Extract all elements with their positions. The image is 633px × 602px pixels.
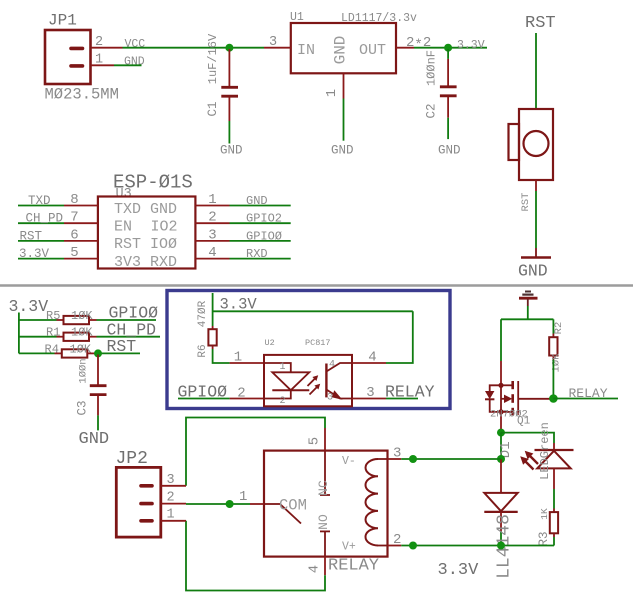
U1 OUT pin lead (396, 47, 414, 49)
highlight frame (blue) (167, 291, 450, 409)
LED D1 upper lead (553, 443, 555, 450)
svg-text:PC817: PC817 (305, 338, 331, 348)
svg-text:NC: NC (316, 480, 331, 496)
C3 top plate (90, 384, 107, 387)
wire RELAY to right (553, 398, 618, 400)
svg-text:2: 2 (279, 396, 285, 407)
resistor R2 lower lead (552, 356, 554, 360)
wire RELAY (opto) (386, 398, 418, 400)
junction node V+ left (409, 542, 417, 550)
Q1 body diode left path (490, 385, 501, 391)
diode D2 lower lead (500, 512, 502, 531)
svg-text:GND: GND (79, 430, 110, 449)
Q1 drain stub (501, 384, 513, 386)
U3 pin 3 lead (195, 240, 229, 242)
U2 collector path (326, 363, 352, 372)
svg-text:JP2: JP2 (116, 449, 148, 469)
svg-text:3V3 RXD: 3V3 RXD (114, 254, 177, 271)
supply stem (527, 299, 529, 306)
svg-text:CH_PD: CH_PD (26, 212, 64, 226)
wire JP2 pin2 to COM (186, 503, 250, 505)
svg-text:R3: R3 (537, 531, 551, 546)
U3 pin 1 lead (195, 205, 229, 207)
wire right branch to R2 (552, 319, 554, 333)
resistor R1 body (64, 333, 90, 341)
wire source node down to V- node (500, 433, 502, 459)
svg-text:3: 3 (366, 385, 374, 401)
svg-text:R6: R6 (197, 344, 209, 357)
C2 upper wire (447, 49, 449, 59)
relay pin 3 lead (V-) (388, 458, 402, 460)
svg-text:R1: R1 (46, 326, 60, 340)
JP2 pin stub 3 (141, 484, 152, 488)
ground symbol lead (535, 248, 537, 257)
resistor R4 right lead (87, 352, 94, 354)
pushbutton lower lead (535, 180, 537, 191)
wire C3 to GND (97, 415, 99, 430)
svg-text:TXD GND: TXD GND (114, 201, 177, 218)
svg-text:JP1: JP1 (48, 12, 77, 30)
svg-text:MØ23.5MM: MØ23.5MM (45, 86, 119, 104)
svg-text:1ØK: 1ØK (71, 309, 93, 323)
junction node V- row (497, 455, 505, 463)
relay coil (366, 459, 379, 545)
wire R3 to V+ rail (553, 537, 555, 546)
junction node at C2 tap (444, 44, 452, 52)
pushbutton S1 body (519, 109, 553, 180)
svg-text:1ØK: 1ØK (71, 326, 93, 340)
U2 emission arrow b (310, 386, 319, 395)
svg-text:OUT: OUT (359, 42, 386, 59)
capacitor C3 (76, 355, 110, 450)
svg-text:NO: NO (316, 514, 331, 530)
supply symbol wide bar (519, 297, 538, 300)
Q1 source stub (501, 411, 513, 413)
svg-text:RST: RST (520, 193, 532, 212)
svg-text:GND: GND (332, 36, 350, 65)
resistor R2 upper lead (552, 334, 554, 338)
svg-text:GND: GND (518, 262, 548, 281)
C2 lower lead (447, 97, 449, 118)
resistor R5 body (64, 316, 90, 324)
wire right drop to opto pin4 (386, 311, 413, 363)
wire source node to LED corner (501, 433, 554, 443)
U3 body (98, 197, 195, 269)
junction node RST/C3 (94, 349, 102, 357)
resistor R3 body (550, 512, 558, 533)
Q1 body diode lower path (490, 399, 501, 412)
svg-text:GPIO2: GPIO2 (246, 212, 282, 226)
U2 emission arrow a (308, 378, 317, 387)
svg-text:2: 2 (237, 386, 245, 402)
JP2 pin 1 lead (161, 520, 186, 522)
junction node COM wire (226, 500, 234, 508)
svg-text:EN: EN (114, 219, 132, 236)
U1 body (291, 23, 396, 73)
connector JP2 (116, 467, 161, 537)
resistor R6 body (208, 329, 216, 345)
svg-text:8: 8 (70, 192, 78, 208)
wire GPIO0 row left (19, 319, 57, 321)
opto U2 pin 3 lead (352, 398, 386, 400)
Q1 channel segment top (511, 381, 514, 389)
wire 3.3V rail right of U1 (414, 47, 487, 49)
wire V+ rail (401, 545, 554, 547)
wire CH_PD row left (19, 336, 57, 338)
resistor R5 left lead (57, 319, 64, 321)
relay K1 body (264, 451, 388, 557)
resistor R1 left lead (57, 336, 64, 338)
svg-text:RELAY: RELAY (328, 557, 379, 576)
svg-text:C1: C1 (206, 101, 220, 116)
svg-text:3: 3 (208, 227, 216, 243)
LED D1 emission arrow a (529, 455, 538, 464)
Q1 body diode bar (485, 398, 494, 400)
relay pin 5 lead (top) (324, 428, 326, 451)
relay pin 4 lead (bottom) (324, 557, 326, 576)
svg-text:TXD: TXD (28, 194, 51, 208)
svg-text:3.3V: 3.3V (9, 297, 49, 316)
LED D1 lower lead (553, 468, 555, 489)
relay NO contact line (324, 531, 326, 556)
wire RST (18, 240, 64, 242)
svg-text:R5: R5 (46, 309, 60, 323)
relay coil bottom connect (378, 545, 388, 547)
resistor R5 right lead (89, 319, 97, 321)
wire 3.3V vertical rail (18, 313, 20, 354)
wire CH_PD row right (97, 336, 161, 338)
svg-text:IN: IN (297, 42, 315, 59)
svg-text:RST: RST (525, 14, 556, 33)
wire D2 to V+ rail (500, 531, 502, 545)
supply symbol (inverted ground) small bar (525, 291, 531, 293)
voltage regulator U1 (264, 11, 431, 158)
JP1 pin stub 2 (71, 47, 83, 51)
svg-text:C2: C2 (425, 103, 439, 118)
junction node Q1 source (497, 429, 505, 437)
connector JP1 (45, 30, 91, 84)
pushbutton side tab (509, 124, 520, 160)
wire switch to GND (535, 191, 537, 248)
svg-text:GND: GND (124, 55, 145, 68)
C2 top plate (440, 85, 457, 88)
svg-text:U3: U3 (116, 187, 132, 202)
svg-text:4: 4 (208, 245, 216, 261)
svg-text:3.3V: 3.3V (438, 561, 480, 580)
Q1 drain junction dot (498, 383, 503, 388)
svg-text:4: 4 (329, 360, 335, 371)
relay NC tick (320, 494, 330, 496)
wire GPIO2 (230, 222, 291, 224)
U3 pin 4 lead (195, 258, 229, 260)
C3 bottom plate (90, 393, 107, 396)
svg-text:2: 2 (167, 491, 175, 506)
junction node V- left (409, 455, 417, 463)
junction node at C1 tap (225, 44, 233, 52)
svg-text:C3: C3 (76, 400, 90, 415)
wire RST to switch (535, 33, 537, 109)
wire LED to R3 (553, 489, 555, 509)
relay NC contact line (324, 451, 326, 495)
Q1 channel segment bottom (511, 408, 514, 416)
wire RXD (230, 258, 291, 260)
C3 upper lead (97, 355, 99, 385)
JP2 pin stub 2 (141, 502, 152, 506)
wire R6 to opto pin1 (213, 349, 230, 363)
junction node RELAY/gate/R2 (549, 394, 558, 403)
wire U1 GND down (343, 99, 345, 141)
wire GND right (230, 205, 291, 207)
svg-text:GND: GND (438, 144, 461, 158)
svg-text:1: 1 (279, 362, 285, 373)
resistor R6 upper lead (212, 326, 214, 329)
svg-text:RXD: RXD (246, 247, 268, 261)
relay coil top connect (378, 458, 388, 460)
capacitor C2 (425, 49, 461, 158)
svg-text:1K: 1K (539, 508, 550, 520)
U2 LED cathode bar (272, 389, 309, 391)
svg-text:R4: R4 (45, 342, 59, 356)
C1 upper lead (228, 49, 230, 86)
svg-text:3: 3 (393, 446, 401, 462)
svg-text:IO2: IO2 (151, 219, 178, 236)
svg-text:GND: GND (331, 144, 354, 158)
relay NO tick (320, 530, 330, 532)
pushbutton actuator circle (524, 131, 549, 156)
wire 3.3V horizontal (opto) (213, 310, 413, 312)
svg-text:3.3V: 3.3V (457, 39, 485, 52)
svg-text:U2: U2 (265, 338, 275, 348)
resistor R2 body (549, 337, 557, 355)
svg-text:3.3V: 3.3V (19, 247, 50, 261)
Q1 body diode triangle (485, 391, 494, 399)
JP1 pin 1 lead (91, 64, 114, 66)
svg-text:47ØR: 47ØR (197, 300, 209, 327)
svg-text:RST: RST (20, 229, 43, 243)
Q1 gate line (517, 381, 519, 415)
U3 pin 2 lead (195, 222, 229, 224)
svg-text:R2: R2 (553, 322, 565, 335)
svg-text:RELAY: RELAY (569, 386, 608, 401)
svg-text:U1: U1 (290, 11, 304, 24)
U2 internal pin2 path (264, 390, 291, 398)
LED D1 triangle (537, 451, 571, 469)
resistor R4 left lead (55, 352, 62, 354)
U3 pin 7 lead (64, 222, 98, 224)
svg-text:3: 3 (167, 473, 175, 488)
U1 GND pin lead (343, 73, 345, 98)
capacitor C1 (206, 33, 243, 157)
svg-text:Q1: Q1 (517, 416, 531, 428)
svg-text:1ØØn: 1ØØn (78, 358, 90, 383)
svg-text:1ØK: 1ØK (551, 353, 563, 373)
U2 phototransistor base bar (325, 364, 327, 398)
svg-text:1uF/16V: 1uF/16V (206, 33, 220, 84)
separator line (0, 284, 633, 286)
svg-text:GND: GND (220, 144, 243, 158)
C2 upper lead (447, 59, 449, 86)
svg-text:RST IOØ: RST IOØ (114, 236, 177, 253)
wire left branch to Q1 drain (green part) (500, 319, 502, 361)
transistor Q1 2N7002 (485, 381, 550, 429)
svg-text:2: 2 (393, 532, 401, 548)
wire VCC rail from JP1 to U1 IN (123, 47, 265, 49)
junction node V+ at D2 (497, 542, 505, 550)
optocoupler U2 body (264, 355, 352, 406)
relay switch arm (280, 504, 301, 524)
svg-text:3: 3 (269, 35, 277, 50)
Q1 source junction dot (498, 409, 503, 414)
JP2 pin stub 1 (141, 519, 152, 523)
wire C1 to GND (228, 121, 230, 144)
Q1 body tie (500, 385, 502, 412)
LED D1 emission arrow b (525, 461, 534, 470)
diode D2 upper lead (500, 459, 502, 493)
diode D2 cathode bar (484, 511, 517, 513)
C1 bottom plate (221, 95, 238, 98)
module ESP-01S U3 (18, 172, 291, 271)
svg-text:COM: COM (279, 497, 307, 515)
JP2 pin 3 lead (161, 485, 186, 487)
U3 pin 6 lead (64, 240, 98, 242)
opto U2 pin 4 lead (352, 362, 386, 364)
U3 pin 5 lead (64, 258, 98, 260)
opto U2 pin 1 lead (230, 362, 264, 364)
wire relay pin5 up and over to JP2 pin3 (186, 418, 325, 486)
svg-text:V+: V+ (342, 541, 356, 554)
resistor R1 right lead (89, 336, 97, 338)
U2 internal pin1 path (264, 363, 291, 372)
wire TXD (18, 205, 64, 207)
svg-text:1: 1 (208, 192, 216, 208)
svg-text:7: 7 (70, 210, 78, 226)
resistor R3 upper lead (553, 509, 555, 513)
svg-text:1ØØnF: 1ØØnF (425, 50, 439, 86)
svg-text:VCC: VCC (125, 38, 146, 51)
Q1 source lead down (500, 412, 502, 429)
svg-text:RST: RST (107, 337, 137, 356)
U1 IN pin lead (264, 47, 291, 49)
wire relay pin4 down and over to JP2 pin1 (186, 521, 325, 591)
resistor R4 body (62, 349, 88, 357)
svg-text:5: 5 (307, 437, 323, 445)
ground symbol bar (521, 256, 551, 259)
JP2 pin 2 lead (161, 503, 186, 505)
svg-text:3: 3 (327, 393, 333, 404)
svg-text:4: 4 (307, 565, 323, 573)
wire C2 to GND (447, 118, 449, 139)
svg-text:1: 1 (325, 89, 340, 97)
wire V- rail (401, 458, 501, 460)
resistor R6 lower lead (212, 346, 214, 350)
C1 lower lead (228, 97, 230, 121)
U3 pin 8 lead (64, 205, 98, 207)
svg-text:1: 1 (167, 508, 175, 523)
wire RST row left (19, 352, 55, 354)
svg-text:V-: V- (342, 455, 356, 468)
LED D1 cathode bar (535, 449, 574, 451)
wire supply horizontal (501, 318, 553, 320)
wire RST row right (95, 352, 141, 354)
wire GND stub from JP1 pin1 (114, 64, 142, 66)
svg-text:LD1117/3.3v: LD1117/3.3v (341, 12, 417, 25)
wire GPIO0 to opto pin2 (178, 398, 230, 400)
resistor R3 lower lead (553, 533, 555, 537)
relay pin 2 lead (V+) (388, 545, 402, 547)
diode D2 triangle (484, 493, 517, 511)
U2 LED triangle (272, 372, 309, 390)
svg-text:RELAY: RELAY (385, 383, 435, 402)
relay COM internal path (264, 503, 280, 505)
Q1 drain lead (500, 361, 502, 385)
wire GPIO0 (230, 240, 291, 242)
wire 3.3V drop to R6 (212, 293, 214, 326)
relay COM pin lead (left) (250, 503, 264, 505)
C1 top plate (221, 86, 238, 89)
Q1 gate lead to RELAY node (518, 398, 549, 400)
wire R2 to RELAY node (552, 360, 554, 399)
svg-text:2: 2 (208, 210, 216, 226)
svg-text:LEDGreen: LEDGreen (538, 422, 552, 480)
svg-text:5: 5 (70, 245, 78, 261)
Q1 channel segment middle (511, 394, 514, 403)
C3 lower lead (97, 396, 99, 416)
wire CH_PD (18, 222, 64, 224)
svg-text:1: 1 (239, 489, 247, 505)
svg-text:GPIOØ: GPIOØ (246, 229, 282, 243)
supply symbol middle bar (522, 294, 533, 296)
svg-text:4: 4 (368, 350, 376, 366)
U2 emitter path with arrow (326, 390, 352, 399)
opto U2 pin 2 lead (230, 398, 264, 400)
JP1 pin stub 1 (71, 64, 83, 68)
Q1 body stub with arrow (501, 398, 505, 400)
svg-text:GND: GND (246, 194, 268, 208)
C2 bottom plate (440, 94, 457, 97)
svg-text:1: 1 (234, 350, 242, 366)
svg-text:6: 6 (70, 227, 78, 243)
wire 3.3V (18, 258, 64, 260)
JP1 pin 2 lead (91, 47, 123, 49)
wire GPIO0 row right (97, 319, 157, 321)
svg-text:1ØK: 1ØK (70, 342, 92, 356)
